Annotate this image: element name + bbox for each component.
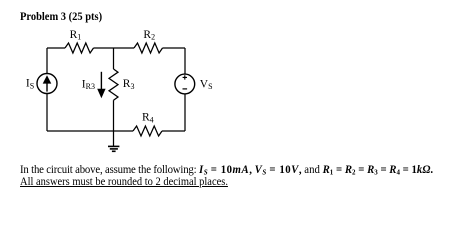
title text <box>20 12 102 24</box>
current arrow IR3 head <box>97 89 105 99</box>
wire middle branch bottom <box>113 100 115 131</box>
resistor R2 <box>134 43 163 53</box>
svg-text:IS: IS <box>26 78 34 91</box>
ground stub wire <box>113 131 115 146</box>
ground bar 3 <box>112 150 116 152</box>
svg-text:R3: R3 <box>123 78 135 91</box>
paragraph line 1 <box>20 165 433 176</box>
svg-text:VS: VS <box>200 78 213 91</box>
svg-text:IR3: IR3 <box>82 78 95 91</box>
current arrow IR3 stem <box>100 72 102 91</box>
voltage source VS (circle) <box>175 74 195 94</box>
current source IS (circle) <box>37 74 57 94</box>
wire left branch <box>46 48 48 131</box>
svg-text:R2: R2 <box>143 29 155 42</box>
resistor R4 <box>133 126 162 136</box>
wire bottom-left segment <box>47 130 133 132</box>
wire bottom-right segment <box>162 130 185 132</box>
svg-text:R4: R4 <box>142 112 154 125</box>
wire right branch <box>184 48 186 131</box>
wire top-right segment <box>163 47 186 49</box>
wire top-middle segment <box>94 47 135 49</box>
current source IS arrow stem <box>46 83 48 92</box>
ground bar 1 <box>108 145 119 147</box>
voltage source VS minus sign <box>183 88 188 90</box>
resistor R1 <box>65 43 94 53</box>
current source IS arrow head <box>43 75 52 83</box>
resistor R3 <box>109 69 118 100</box>
svg-text:R1: R1 <box>70 29 82 42</box>
voltage source VS plus sign <box>183 75 187 79</box>
wire middle branch top <box>113 48 115 69</box>
paragraph line 2 (underlined) <box>20 177 228 188</box>
wire top-left segment <box>47 47 65 49</box>
ground bar 2 <box>110 148 118 150</box>
